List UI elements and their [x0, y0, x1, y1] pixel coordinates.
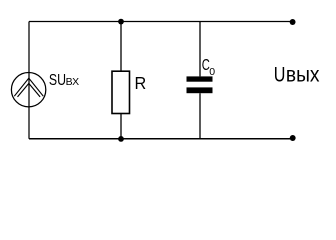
svg-text:ВХ: ВХ — [66, 76, 80, 88]
svg-text:вых: вых — [286, 64, 320, 87]
svg-text:0: 0 — [209, 66, 215, 78]
svg-text:SU: SU — [49, 70, 66, 88]
svg-text:U: U — [274, 63, 286, 87]
svg-text:R: R — [135, 73, 147, 93]
